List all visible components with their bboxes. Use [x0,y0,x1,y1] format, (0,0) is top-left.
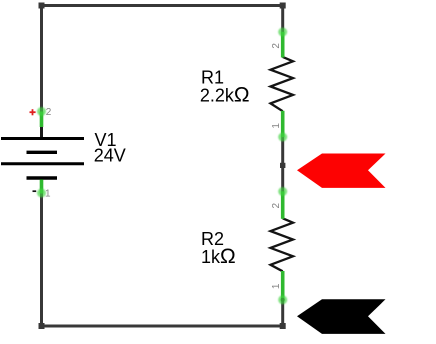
svg-text:2: 2 [271,202,282,208]
wire: V1 symbol top leg (pin stub to plus plate) [40,126,43,139]
polarity marker: V1 minus [33,190,37,192]
resistor R1 pin 1 stub [278,111,287,142]
junction: bottom-left corner node [39,323,45,329]
battery V1 pin 2 green stub [37,107,46,127]
resistor R2 pin 1 stub [278,271,287,304]
resistor R1 zigzag [271,57,294,111]
net highlight glow: V1 pin 1 wire [38,192,45,206]
net highlight glow: V1 pin 2 wire [38,97,45,115]
wire: left vertical (top corner down to V1 pin 2 node) [40,4,43,115]
wire: left vertical lower (V1 minus down to bottom corner) [40,193,43,328]
wire: middle net (R1 pin1 to R2 pin2) [281,137,284,192]
polarity marker: V1 plus [30,109,36,115]
junction: bottom-right corner node [280,323,286,329]
svg-text:2: 2 [271,43,282,49]
resistor R2 zigzag [271,218,294,271]
svg-text:1kΩ: 1kΩ [201,245,236,268]
battery V1 pin 1 green stub [37,180,46,198]
junction: middle node (probe attach point) [280,163,285,168]
resistor R1 pin 2 stub [278,28,287,58]
resistor R2 pin 2 stub [278,187,287,219]
svg-text:1: 1 [271,283,282,289]
svg-text:2: 2 [46,107,52,118]
svg-text:2.2kΩ: 2.2kΩ [200,83,250,106]
junction: top-right corner node [280,3,286,9]
wire: bottom net (V1 minus to R2 pin1) [42,325,284,328]
svg-text:1: 1 [45,188,51,199]
junction: top-left corner node [39,3,45,9]
wire: top net (V1 pin2 to R1 pin2) [42,4,283,7]
wire: right vertical lower (R2 pin1 down to bottom corner) [281,301,284,328]
probe arrow black (bottom net) [297,299,386,334]
battery V1 plates [1,139,84,179]
wire: right vertical upper (top corner down to R1 pin2) [281,4,284,34]
svg-text:1: 1 [271,123,282,129]
svg-text:24V: 24V [94,146,126,166]
probe arrow red (middle node between R1 and R2) [297,154,386,188]
